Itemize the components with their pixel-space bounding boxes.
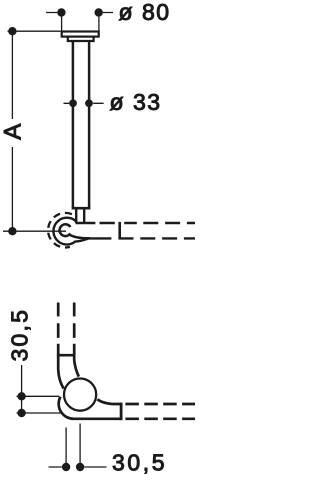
tube wall right	[88, 41, 91, 208]
plan rail joint cap	[120, 403, 123, 421]
dimension A dot top	[8, 27, 16, 35]
dimension ø80 line stubs	[46, 12, 113, 14]
plan vertical leg left wall and outer bend	[58, 344, 63, 389]
dimension ø33 dot right	[85, 99, 93, 107]
dimension A extension line bottom	[3, 230, 66, 232]
extension line right from flange to ø80 dot	[98, 13, 100, 31]
dimension A line upper segment	[11, 31, 13, 119]
extension line disc centre	[17, 395, 60, 397]
dimension 30,5 horizontal dot right	[76, 463, 84, 471]
elbow outer bend contour	[53, 218, 88, 245]
rail bottom line solid	[89, 237, 112, 239]
rail joint bar	[118, 222, 121, 240]
elbow tube end ring	[60, 224, 90, 238]
extension line left from flange to ø80 dot	[61, 13, 63, 31]
corner disc	[64, 379, 96, 411]
svg-text:A: A	[0, 124, 27, 140]
dimension ø33 dot left	[69, 99, 77, 107]
plan vertical leg right wall dashes	[73, 303, 76, 338]
rail top dashes	[100, 222, 196, 224]
svg-text:30,5: 30,5	[7, 308, 33, 362]
ceiling flange plate	[62, 32, 99, 37]
rail top line solid	[76, 222, 96, 224]
rail bottom dashes	[119, 237, 195, 239]
plan leg joint crossbar	[57, 354, 76, 357]
extension line leg centre vertical	[65, 428, 67, 472]
plan vertical leg right wall solid	[74, 344, 79, 377]
plan horizontal leg bottom wall dashes	[125, 417, 195, 420]
dimension ø80 dot left	[57, 8, 65, 16]
extension line disc centre vertical	[79, 424, 81, 472]
dimension 30,5 vertical line	[21, 365, 23, 414]
dimension A extension line top	[8, 30, 61, 32]
dimension ø80 dot right	[95, 8, 103, 16]
svg-text:ø 33: ø 33	[110, 89, 162, 115]
tube end cap	[72, 207, 91, 210]
dimension A dot bottom	[8, 227, 16, 235]
stem right wall	[83, 208, 85, 223]
tube wall left	[72, 41, 75, 208]
plan vertical leg left wall dashes	[57, 303, 60, 338]
dimension 30,5 horizontal dot left	[62, 463, 70, 471]
plan horizontal leg top wall	[97, 399, 121, 404]
extension line rail centre	[17, 412, 63, 414]
dimension 30,5 horizontal line stubs	[49, 466, 107, 468]
hidden corner disc dashed circle	[48, 213, 72, 248]
dimension 30,5 vertical dot top	[17, 392, 25, 400]
svg-text:30,5: 30,5	[112, 450, 167, 476]
plan outer bend sliver	[59, 397, 121, 419]
stem left wall	[75, 208, 77, 223]
dimension ø33 stubs	[64, 102, 104, 104]
plan horizontal leg top wall dashes	[125, 403, 195, 406]
dimension A line lower segment	[11, 147, 13, 231]
svg-text:ø 80: ø 80	[119, 0, 171, 25]
flange collar band	[68, 37, 94, 41]
dimension 30,5 vertical dot bottom	[17, 409, 25, 417]
